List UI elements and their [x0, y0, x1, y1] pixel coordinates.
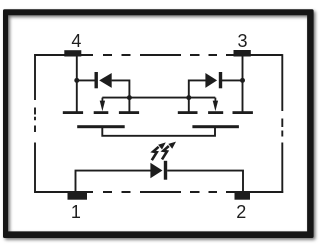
diode D2 triangle — [205, 73, 217, 88]
MOSFET Q1 drain contact bar — [63, 111, 83, 114]
package outline top edge (dashed) — [34, 54, 282, 56]
MOSFET Q1 gate electrode bar — [77, 125, 125, 128]
wire LED anode from pin1 — [76, 171, 151, 192]
junction Q1 source/body bus — [127, 95, 132, 100]
junction pin4/diode — [74, 78, 79, 83]
MOSFET Q2 gate electrode bar — [192, 125, 239, 128]
svg-text:1: 1 — [71, 202, 81, 222]
package outline bottom edge (dashed) — [34, 191, 283, 193]
pin 4 pad — [64, 50, 81, 56]
light emission arrow 2 — [162, 142, 176, 160]
wire LED cathode to pin2 — [167, 171, 243, 192]
diode D2 cathode bar — [219, 72, 222, 88]
wire gate coupling (photodiode stack) — [102, 128, 215, 136]
wire diode D1 cathode branch — [77, 79, 95, 81]
package outline right edge (dashed) — [281, 54, 283, 193]
wire pin4 to MOSFET Q1 drain — [76, 56, 78, 112]
junction pin3/diode — [240, 78, 245, 83]
pin 3 pad — [234, 50, 251, 57]
MOSFET Q2 source contact bar — [178, 111, 198, 114]
MOSFET Q1 body contact bar — [94, 111, 109, 114]
svg-text:3: 3 — [237, 31, 247, 51]
MOSFET Q2 body contact bar — [208, 111, 223, 114]
wire diode D2 anode to Q2 source riser — [189, 80, 206, 111]
MOSFET Q2 body arrow — [213, 98, 218, 112]
MOSFET Q1 source contact bar — [119, 111, 139, 114]
MOSFET Q2 drain contact bar — [233, 111, 253, 114]
wire pin3 to MOSFET Q2 drain — [242, 56, 244, 112]
wire diode D1 anode to Q1 source riser — [112, 80, 130, 111]
diode D1 cathode bar — [95, 72, 98, 88]
wire diode D2 cathode branch — [222, 79, 243, 81]
junction Q2 source/body bus — [186, 95, 191, 100]
LED cathode bar — [164, 161, 167, 180]
wire common source/body bus — [102, 97, 215, 99]
svg-text:2: 2 — [236, 202, 246, 222]
diode D1 triangle — [99, 73, 112, 88]
pin 1 pad — [68, 191, 88, 200]
LED triangle — [150, 163, 162, 178]
package outline left edge (dashed) — [34, 54, 36, 193]
svg-text:4: 4 — [71, 31, 81, 51]
light emission arrow 1 — [152, 142, 166, 160]
pin 2 pad — [235, 191, 251, 200]
MOSFET Q1 body arrow — [100, 98, 105, 112]
